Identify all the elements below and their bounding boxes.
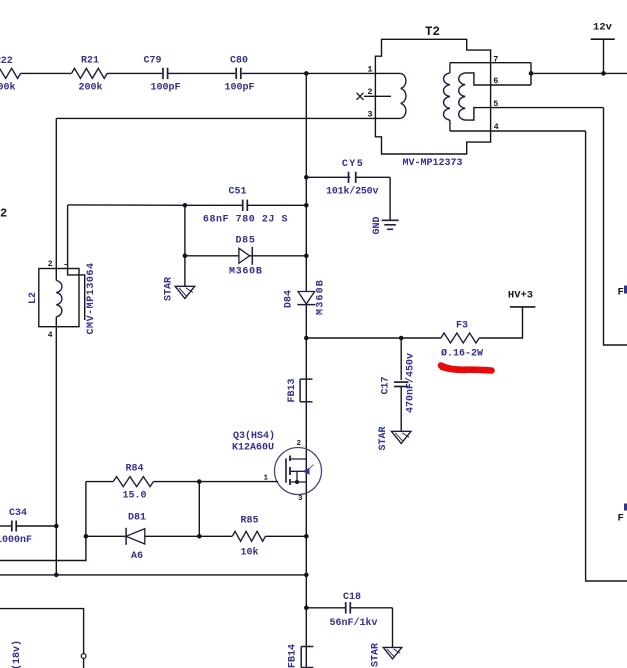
svg-text:MV-MP12373: MV-MP12373 bbox=[402, 158, 462, 169]
T2 pin 5 dogleg wire bbox=[465, 108, 603, 121]
svg-text:K12A60U: K12A60U bbox=[232, 443, 274, 454]
svg-text:CMV-MP13064: CMV-MP13064 bbox=[86, 262, 97, 334]
resistor R84 bbox=[86, 481, 113, 483]
wire L2 to C51 bbox=[68, 204, 185, 206]
svg-text:GND: GND bbox=[372, 216, 383, 234]
wire CY5 to ground bbox=[356, 176, 390, 178]
svg-text:3: 3 bbox=[298, 495, 303, 503]
svg-text:100pF: 100pF bbox=[150, 83, 180, 94]
wire C51 junction down to D85 bbox=[184, 205, 186, 256]
wire bbox=[242, 72, 401, 74]
svg-text:470nF/450v: 470nF/450v bbox=[405, 353, 417, 413]
power symbol 12v bbox=[591, 38, 615, 40]
svg-text:6: 6 bbox=[493, 76, 498, 86]
node junction at main bus bbox=[304, 71, 309, 76]
junction pin7/pin6 to 12v rail bbox=[530, 63, 532, 85]
wire main 12v rail to right edge bbox=[531, 72, 627, 74]
wire bottom horizontal bus bbox=[0, 574, 306, 576]
svg-text:4: 4 bbox=[48, 331, 53, 340]
svg-text:C79: C79 bbox=[143, 56, 161, 67]
wire pin3 to left bus bbox=[56, 117, 400, 119]
T2 primary winding bbox=[401, 73, 406, 118]
svg-text:R21: R21 bbox=[81, 56, 99, 67]
diode D84 (vertical, pointing down) bbox=[298, 292, 315, 304]
svg-text:F: F bbox=[618, 513, 624, 525]
Q3 body tap and arrow bbox=[290, 470, 306, 472]
svg-text:R85: R85 bbox=[240, 516, 258, 527]
svg-text:M360B: M360B bbox=[229, 267, 263, 278]
svg-text:5: 5 bbox=[493, 99, 498, 109]
Q3 source tap bbox=[290, 481, 306, 483]
wire CY5 tap bbox=[304, 175, 309, 180]
capacitor C18 bbox=[345, 602, 347, 613]
resistor R85 bbox=[232, 531, 265, 541]
svg-text:200k: 200k bbox=[78, 82, 102, 94]
wire bbox=[107, 72, 162, 74]
wire left bus from pin3 wire down to L2 bbox=[55, 118, 57, 280]
svg-text:F: F bbox=[618, 287, 624, 299]
inductor L2 winding bbox=[56, 281, 62, 317]
resistor R22 (partially cut at left edge) bbox=[0, 68, 21, 78]
svg-text:M360B: M360B bbox=[316, 279, 327, 315]
Q3 channel segments bbox=[289, 456, 291, 462]
wire L2 right pin from C51 wire bbox=[68, 205, 85, 320]
svg-text:15.0: 15.0 bbox=[122, 491, 146, 502]
svg-text:C34: C34 bbox=[9, 508, 27, 519]
T2 secondary winding B (pins 6-5) bbox=[459, 73, 465, 120]
svg-text:10k: 10k bbox=[240, 547, 258, 559]
inductor L2 box bbox=[39, 269, 79, 327]
svg-text:2: 2 bbox=[48, 260, 53, 269]
svg-text:1000nF: 1000nF bbox=[0, 535, 32, 546]
svg-text:C51: C51 bbox=[228, 187, 246, 198]
svg-text:C80: C80 bbox=[230, 56, 248, 67]
T2 pin 7 wire bbox=[450, 62, 531, 64]
svg-text:STAR: STAR bbox=[378, 426, 389, 450]
red marker stroke annotation bbox=[441, 366, 492, 371]
T2 pin 6 dogleg wire bbox=[465, 73, 531, 85]
svg-text:Q3(HS4): Q3(HS4) bbox=[233, 430, 275, 442]
T2 pin 2 no-connect X and stub bbox=[364, 95, 391, 97]
svg-text:-: - bbox=[63, 261, 68, 270]
capacitor C17 (vertical) bbox=[400, 338, 402, 380]
svg-text:FB13: FB13 bbox=[287, 378, 298, 402]
svg-text:2: 2 bbox=[296, 440, 301, 448]
wire bbox=[21, 72, 72, 74]
wire F3 to HV+3 bbox=[479, 307, 522, 338]
svg-text:101k/250v: 101k/250v bbox=[326, 185, 378, 197]
svg-text:C18: C18 bbox=[343, 592, 361, 603]
wire R84 left leg down bbox=[85, 482, 87, 537]
T2 pin 4 wire bbox=[450, 130, 586, 132]
connector pin circle bbox=[81, 654, 86, 659]
svg-text:L2: L2 bbox=[28, 292, 39, 304]
transistor Q3 circle bbox=[275, 448, 322, 495]
svg-text:R22: R22 bbox=[0, 56, 13, 67]
resistor R21 bbox=[72, 68, 108, 78]
fuse/resistor F3 bbox=[441, 333, 479, 343]
svg-text:Ø.16-2W: Ø.16-2W bbox=[441, 348, 483, 360]
svg-text:200k: 200k bbox=[0, 82, 16, 94]
wire bbox=[169, 72, 236, 74]
capacitor CY5 bbox=[348, 172, 350, 183]
svg-text:7: 7 bbox=[493, 55, 498, 65]
svg-text:STAR: STAR bbox=[371, 643, 382, 667]
wire L2 lower lead down left bus bbox=[55, 317, 57, 575]
capacitor C80 bbox=[235, 68, 237, 79]
Q3 drain tap bbox=[290, 458, 306, 460]
wire gate row bbox=[199, 481, 278, 483]
transformer T2 outline bbox=[375, 39, 490, 154]
svg-text:T2: T2 bbox=[425, 25, 440, 39]
wire C18 tap bbox=[304, 606, 309, 611]
ground GND symbol bbox=[382, 219, 399, 221]
wire D84 to F3 row bbox=[304, 336, 309, 341]
diode D81 bbox=[86, 535, 126, 537]
T2 secondary winding A (pins 7-4) bbox=[449, 63, 451, 73]
svg-text:2: 2 bbox=[0, 207, 7, 221]
svg-text:F3: F3 bbox=[456, 321, 468, 332]
Q3 gate bar bbox=[285, 459, 287, 483]
svg-text:FB14: FB14 bbox=[288, 644, 299, 668]
svg-text:STAR: STAR bbox=[164, 277, 175, 301]
wire pin5 down right side bbox=[604, 108, 627, 345]
svg-text:12v: 12v bbox=[593, 22, 613, 34]
svg-text:R84: R84 bbox=[125, 464, 143, 475]
svg-text:1: 1 bbox=[367, 65, 372, 75]
svg-text:CY5: CY5 bbox=[342, 159, 364, 170]
svg-text:D81: D81 bbox=[128, 513, 146, 524]
wire pin4 down right side to bottom bbox=[586, 131, 627, 581]
svg-text:2: 2 bbox=[367, 87, 372, 97]
capacitor C79 bbox=[162, 68, 164, 79]
capacitor C51 bbox=[185, 204, 243, 206]
wire main vertical bus bbox=[305, 73, 307, 291]
wire C18 to STAR bbox=[392, 608, 394, 648]
wire exits left at y=560.5 bbox=[0, 536, 86, 560]
svg-text:D84: D84 bbox=[284, 290, 295, 308]
ferrite bead FB14 bbox=[301, 646, 313, 648]
diode D85 bbox=[185, 255, 239, 257]
svg-text:56nF/1kv: 56nF/1kv bbox=[329, 617, 377, 629]
ground STAR (under C17) bbox=[391, 431, 411, 443]
power symbol HV+3 bbox=[510, 306, 535, 308]
ferrite bead FB13 bbox=[300, 378, 312, 380]
capacitor C34 (left edge) bbox=[0, 525, 12, 527]
svg-text:100pF: 100pF bbox=[224, 83, 254, 94]
svg-text:68nF 780 2J S: 68nF 780 2J S bbox=[203, 215, 288, 226]
svg-text:4: 4 bbox=[494, 122, 499, 132]
svg-text:HV+3: HV+3 bbox=[508, 290, 533, 302]
svg-text:D85: D85 bbox=[235, 236, 255, 247]
ground STAR (under C18) bbox=[383, 647, 402, 659]
svg-text:A6: A6 bbox=[131, 551, 143, 562]
ground STAR (left) bbox=[184, 256, 186, 286]
svg-text:C17: C17 bbox=[381, 376, 392, 394]
svg-text:(18v): (18v) bbox=[11, 640, 23, 668]
wire lower-left circuit bbox=[0, 609, 84, 654]
wire R84 right leg down bbox=[198, 482, 200, 537]
